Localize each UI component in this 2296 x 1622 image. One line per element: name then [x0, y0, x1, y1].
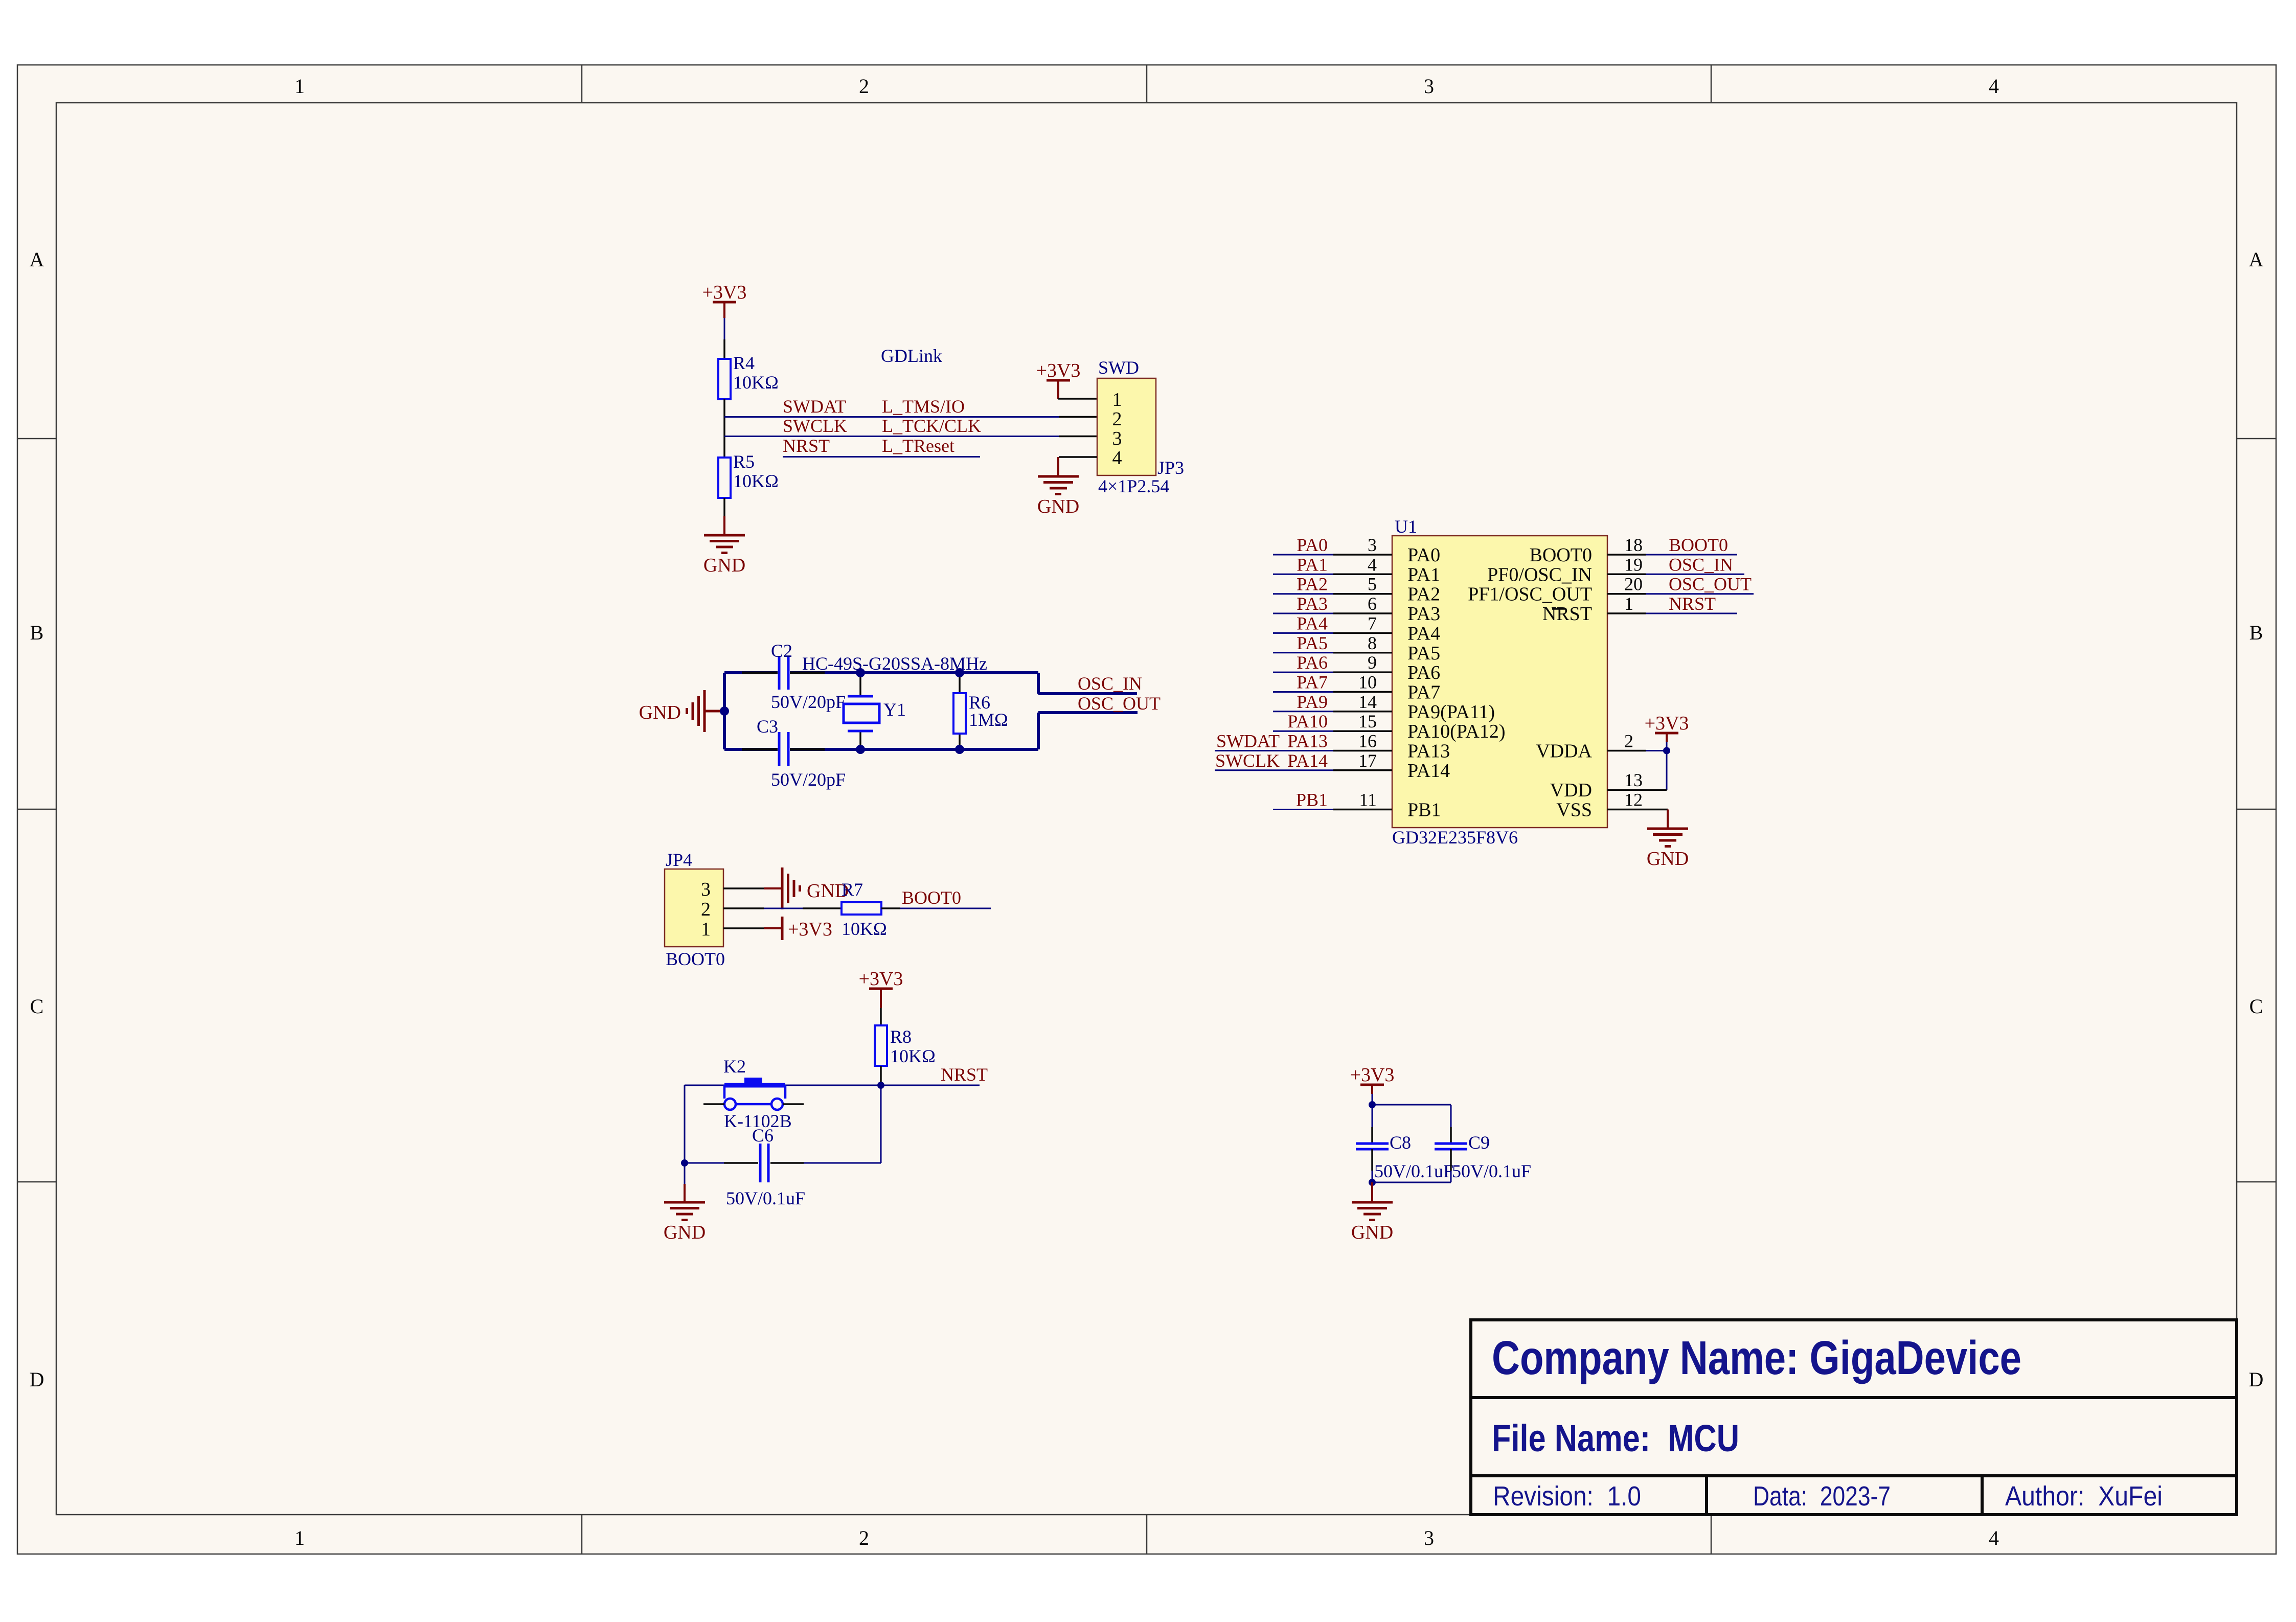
svg-text:BOOT0: BOOT0 [902, 887, 961, 908]
svg-text:Data: 2023-7: Data: 2023-7 [1753, 1481, 1891, 1512]
svg-text:PA7: PA7 [1407, 682, 1440, 703]
wire SWDAT [724, 416, 1097, 418]
svg-text:16: 16 [1358, 731, 1377, 751]
wire VSS to GND [1667, 810, 1669, 829]
svg-text:PF0/OSC_IN: PF0/OSC_IN [1487, 564, 1592, 585]
svg-text:+3V3: +3V3 [1350, 1064, 1395, 1086]
svg-text:BOOT0: BOOT0 [1669, 535, 1728, 555]
svg-text:PA3: PA3 [1297, 593, 1328, 614]
wire NRST (K2) [881, 1085, 980, 1086]
svg-text:JP4: JP4 [666, 850, 692, 870]
pin JP4-2 wire [723, 907, 842, 909]
ground GND (U1 VSS) [1647, 829, 1689, 870]
svg-text:GND: GND [1351, 1222, 1393, 1243]
svg-text:4: 4 [1368, 554, 1377, 575]
svg-text:K2: K2 [723, 1056, 746, 1077]
svg-text:GND: GND [1037, 496, 1079, 517]
svg-text:A: A [30, 248, 44, 271]
power +3V3 (R8 pull-up) [859, 968, 903, 1008]
title block [1471, 1320, 2237, 1515]
svg-text:B: B [30, 621, 44, 644]
node VDDA junction [1663, 747, 1670, 755]
svg-text:D: D [2249, 1368, 2264, 1391]
svg-text:PA9(PA11): PA9(PA11) [1407, 701, 1495, 723]
svg-text:1: 1 [1624, 593, 1633, 614]
svg-text:11: 11 [1359, 790, 1377, 810]
svg-text:10KΩ: 10KΩ [733, 372, 779, 393]
svg-text:OSC_OUT: OSC_OUT [1078, 693, 1161, 714]
pin U1.6 PA3 (left) [1273, 593, 1440, 625]
wire R8 to NRST node [880, 1066, 882, 1085]
pin U1.1 NRST (right) [1542, 593, 1737, 625]
wire K2 right vertical (NRST to C6) [880, 1085, 882, 1163]
svg-text:Revision: 1.0: Revision: 1.0 [1493, 1481, 1641, 1512]
ground GND (JP3 pin4) [1037, 476, 1079, 517]
svg-text:PA6: PA6 [1297, 652, 1328, 673]
svg-text:8: 8 [1368, 633, 1377, 653]
svg-text:GD32E235F8V6: GD32E235F8V6 [1392, 827, 1518, 848]
svg-text:17: 17 [1358, 750, 1377, 771]
pin U1.4 PA1 (left) [1273, 554, 1440, 585]
pin U1.10 PA7 (left) [1273, 672, 1440, 703]
svg-text:L_TCK/CLK: L_TCK/CLK [882, 416, 981, 436]
svg-text:18: 18 [1624, 535, 1643, 555]
svg-text:2: 2 [1624, 731, 1633, 751]
svg-text:20: 20 [1624, 574, 1643, 595]
svg-text:GND: GND [703, 555, 745, 576]
svg-text:VDD: VDD [1550, 780, 1592, 801]
svg-text:PB1: PB1 [1296, 790, 1328, 810]
ground GND (K2/C6) [664, 1202, 706, 1243]
resistor R8 [875, 1025, 936, 1066]
svg-text:PA0: PA0 [1297, 535, 1328, 555]
svg-text:PA1: PA1 [1297, 554, 1328, 575]
svg-text:PA0: PA0 [1407, 544, 1440, 566]
power +3V3 (R4 pull-up) [702, 282, 747, 318]
svg-text:GDLink: GDLink [881, 346, 942, 366]
svg-text:L_TReset: L_TReset [882, 436, 954, 456]
wire osc left vertical [723, 673, 726, 749]
svg-text:9: 9 [1368, 652, 1377, 673]
overline NRST pin name [1552, 608, 1565, 610]
svg-text:2: 2 [1112, 408, 1122, 430]
svg-text:15: 15 [1358, 711, 1377, 732]
svg-text:VSS: VSS [1556, 799, 1592, 821]
svg-text:1: 1 [701, 919, 711, 940]
wire to GND (K2) [684, 1163, 686, 1202]
svg-text:PA3: PA3 [1407, 603, 1440, 625]
power +3V3 (SWD pin1) [1036, 360, 1081, 399]
svg-text:2: 2 [859, 1526, 869, 1549]
svg-text:C2: C2 [771, 641, 792, 661]
crystal Y1 [844, 673, 906, 749]
svg-text:SWDAT: SWDAT [1216, 731, 1280, 751]
svg-text:R5: R5 [733, 451, 755, 472]
svg-text:2: 2 [701, 899, 711, 920]
svg-text:D: D [30, 1368, 44, 1391]
resistor R6 [953, 673, 1008, 749]
svg-text:PA1: PA1 [1407, 564, 1440, 585]
pin U1.15 PA10(PA12) (left) [1273, 711, 1505, 742]
svg-text:50V/20pF: 50V/20pF [771, 692, 846, 712]
node C8 bottom/GND [1369, 1179, 1376, 1186]
svg-text:1: 1 [1112, 389, 1122, 410]
svg-text:1MΩ: 1MΩ [969, 710, 1008, 730]
power +3V3 (decoupling) [1350, 1064, 1395, 1105]
svg-text:PA2: PA2 [1297, 574, 1328, 595]
power +3V3 (U1 VDDA) [1645, 713, 1689, 751]
svg-text:C6: C6 [752, 1125, 774, 1146]
svg-text:C9: C9 [1468, 1132, 1490, 1153]
svg-text:14: 14 [1358, 692, 1377, 712]
svg-text:OSC_IN: OSC_IN [1078, 673, 1142, 694]
wire C8 bottom vertical [1371, 1149, 1373, 1182]
capacitor C2 [771, 641, 846, 712]
svg-text:SWCLK: SWCLK [783, 416, 847, 436]
wire C6 bottom right [770, 1162, 881, 1164]
wire +3V3 to JP3 pin1 [1058, 398, 1097, 400]
svg-text:BOOT0: BOOT0 [666, 949, 725, 969]
svg-text:Author: XuFei: Author: XuFei [2005, 1481, 2163, 1512]
svg-text:PA4: PA4 [1297, 613, 1328, 633]
svg-text:50V/0.1uF: 50V/0.1uF [1452, 1161, 1531, 1181]
node C6/GND junction [681, 1159, 688, 1167]
node +3V3/C8 top [1369, 1101, 1376, 1108]
wire C6 bottom left [685, 1162, 758, 1164]
svg-text:B: B [2249, 621, 2263, 644]
svg-text:PA14: PA14 [1287, 750, 1328, 771]
svg-text:4: 4 [1989, 1526, 1999, 1549]
svg-text:R8: R8 [890, 1026, 912, 1047]
svg-text:NRST: NRST [783, 436, 830, 456]
resistor R7 [842, 879, 887, 939]
svg-text:OSC_OUT: OSC_OUT [1669, 574, 1752, 595]
svg-text:10: 10 [1358, 672, 1377, 693]
pin U1.9 PA6 (left) [1273, 652, 1440, 683]
svg-text:C: C [30, 995, 44, 1018]
svg-text:PB1: PB1 [1407, 799, 1441, 821]
node R6 top [955, 668, 964, 677]
svg-text:SWD: SWD [1098, 357, 1139, 378]
pin U1.17 PA14 (left) [1215, 750, 1450, 782]
capacitor C8 [1356, 1132, 1453, 1181]
svg-text:+3V3: +3V3 [859, 968, 903, 990]
connector JP4 BOOT0 [665, 850, 725, 969]
node Y1 bottom [856, 745, 865, 754]
wire R5 to GND [723, 498, 725, 535]
wire OSC_OUT stub [1038, 713, 1138, 749]
switch K2 K-1102B [703, 1056, 804, 1131]
wire K2 top [685, 1085, 881, 1086]
svg-text:12: 12 [1624, 790, 1643, 810]
svg-text:PA10: PA10 [1287, 711, 1328, 732]
svg-text:Y1: Y1 [883, 699, 906, 720]
svg-text:U1: U1 [1395, 516, 1417, 537]
svg-text:PA14: PA14 [1407, 760, 1450, 782]
svg-text:4: 4 [1989, 75, 1999, 98]
svg-text:19: 19 [1624, 554, 1643, 575]
pin U1.11 PB1 (left) [1273, 790, 1441, 821]
pin JP4-3 wire [723, 887, 764, 889]
svg-text:PA5: PA5 [1297, 633, 1328, 653]
svg-text:C3: C3 [757, 716, 778, 737]
svg-text:BOOT0: BOOT0 [1530, 544, 1592, 566]
svg-text:PA9: PA9 [1297, 692, 1328, 712]
svg-text:C8: C8 [1390, 1132, 1411, 1153]
svg-text:3: 3 [1424, 1526, 1434, 1549]
svg-text:PF1/OSC_OUT: PF1/OSC_OUT [1468, 584, 1592, 605]
svg-text:GND: GND [639, 702, 681, 723]
svg-text:R7: R7 [842, 879, 863, 900]
node osc gnd [720, 706, 729, 716]
svg-text:C: C [2249, 995, 2263, 1018]
pin U1.18 BOOT0 (right) [1530, 535, 1737, 566]
svg-text:10KΩ: 10KΩ [733, 471, 779, 491]
svg-text:13: 13 [1624, 770, 1643, 790]
svg-text:+3V3: +3V3 [1036, 360, 1081, 381]
svg-text:NRST: NRST [1542, 603, 1592, 625]
pin JP3-4 wire to GND [1058, 457, 1097, 476]
pin U1.16 PA13 (left) [1215, 731, 1450, 762]
ground GND (decoupling) [1351, 1202, 1393, 1243]
wire NRST [783, 456, 980, 458]
pin U1.14 PA9(PA11) (left) [1273, 692, 1495, 723]
resistor R5 [718, 451, 779, 498]
wire osc top [724, 671, 1038, 674]
resistor R4 [718, 353, 779, 399]
svg-text:L_TMS/IO: L_TMS/IO [882, 396, 965, 417]
wire R4 bottom / SWDAT-SWCLK vertical [723, 399, 725, 458]
pin U1.19 PF0/OSC_IN (right) [1487, 554, 1744, 585]
svg-text:File Name: MCU: File Name: MCU [1492, 1417, 1739, 1459]
svg-text:50V/0.1uF: 50V/0.1uF [726, 1188, 805, 1208]
svg-text:PA4: PA4 [1407, 623, 1440, 644]
svg-text:3: 3 [1368, 535, 1377, 555]
svg-text:10KΩ: 10KΩ [890, 1046, 936, 1066]
svg-text:PA13: PA13 [1287, 731, 1328, 751]
svg-text:+3V3: +3V3 [1645, 713, 1689, 734]
svg-text:SWDAT: SWDAT [783, 396, 846, 417]
wire VDDA to VDD [1666, 751, 1668, 790]
svg-text:3: 3 [1424, 75, 1434, 98]
svg-text:3: 3 [1112, 428, 1122, 449]
svg-text:PA5: PA5 [1407, 643, 1440, 664]
pin JP4-1 wire [723, 927, 764, 929]
wire C8 top vertical [1372, 1105, 1373, 1144]
wire R7 to BOOT0 [881, 907, 991, 909]
svg-text:A: A [2249, 248, 2264, 271]
svg-text:PA6: PA6 [1407, 662, 1440, 683]
svg-text:OSC_IN: OSC_IN [1669, 554, 1733, 575]
svg-text:PA13: PA13 [1407, 741, 1450, 762]
svg-text:PA7: PA7 [1297, 672, 1328, 693]
svg-text:R4: R4 [733, 353, 755, 373]
svg-text:1: 1 [294, 75, 305, 98]
svg-text:PA10(PA12): PA10(PA12) [1407, 721, 1505, 742]
wire osc bottom [724, 748, 1038, 751]
capacitor C9 [1435, 1132, 1531, 1181]
node NRST junction [877, 1082, 884, 1089]
pin U1.3 PA0 (left) [1273, 535, 1440, 566]
svg-text:7: 7 [1368, 613, 1377, 633]
IC U1 GD32E235F8V6 [1392, 516, 1607, 848]
svg-text:1: 1 [294, 1526, 305, 1549]
svg-text:+3V3: +3V3 [788, 919, 832, 940]
pin U1.20 PF1/OSC_OUT (right) [1468, 574, 1754, 605]
svg-text:VDDA: VDDA [1536, 741, 1592, 762]
wire SWCLK [724, 436, 1097, 437]
capacitor C6 [726, 1125, 805, 1208]
pin U1.13 VDD [1550, 770, 1667, 801]
pin U1.12 VSS [1556, 790, 1668, 821]
wire OSC_IN stub [1038, 673, 1137, 694]
wire C9 bottom vertical [1450, 1149, 1452, 1182]
svg-text:4: 4 [1112, 447, 1122, 469]
svg-text:NRST: NRST [1669, 593, 1716, 614]
wire +3V3 to R8 [880, 1008, 882, 1025]
ground GND (JP4 pin3, rotated) [764, 867, 849, 909]
svg-text:GND: GND [664, 1222, 706, 1243]
svg-text:GND: GND [1647, 848, 1689, 870]
wire to GND (decoupling) [1371, 1182, 1373, 1202]
wire +3V3 to R4 [724, 318, 725, 359]
svg-text:4×1P2.54: 4×1P2.54 [1098, 476, 1169, 496]
ground GND (below R5) [703, 535, 745, 576]
svg-text:3: 3 [701, 879, 711, 900]
svg-text:6: 6 [1368, 593, 1377, 614]
pin U1.7 PA4 (left) [1273, 613, 1440, 644]
svg-text:50V/0.1uF: 50V/0.1uF [1374, 1161, 1453, 1181]
wire K2 left vertical [684, 1085, 686, 1163]
wire C8 bottom to C9 bottom [1372, 1182, 1451, 1183]
pin U1.5 PA2 (left) [1273, 574, 1440, 605]
connector JP3 SWD 4x1P2.54 [1097, 357, 1184, 496]
svg-text:+3V3: +3V3 [702, 282, 747, 303]
svg-text:JP3: JP3 [1157, 458, 1184, 478]
node R6 bottom [955, 745, 964, 754]
svg-text:50V/20pF: 50V/20pF [771, 769, 846, 790]
svg-text:10KΩ: 10KΩ [842, 919, 887, 939]
node Y1 top [856, 668, 865, 677]
svg-text:PA2: PA2 [1407, 584, 1440, 605]
power +3V3 (JP4 pin1, rotated) [764, 917, 832, 940]
svg-text:5: 5 [1368, 574, 1377, 595]
svg-text:SWCLK: SWCLK [1215, 750, 1280, 771]
svg-text:NRST: NRST [941, 1064, 988, 1085]
svg-text:Company Name: GigaDevice: Company Name: GigaDevice [1492, 1331, 2021, 1384]
pin U1.8 PA5 (left) [1273, 633, 1440, 664]
capacitor C3 [757, 716, 846, 790]
pin U1.2 VDDA [1536, 731, 1667, 762]
svg-text:2: 2 [859, 75, 869, 98]
ground GND (oscillator) [639, 690, 724, 732]
wire C8 top to C9 top [1372, 1105, 1451, 1144]
